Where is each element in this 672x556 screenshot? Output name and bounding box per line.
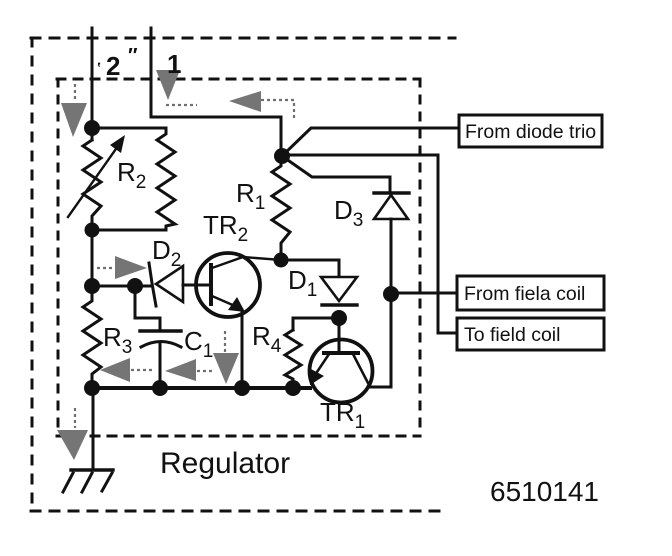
- transistor TR2 base bar: [209, 265, 213, 304]
- resistor R1: [272, 156, 290, 260]
- node: junction (339,318): [331, 310, 347, 326]
- node: bus junction (160,388): [152, 380, 168, 396]
- flow arrow 2 (top left, down): [61, 103, 87, 137]
- wire: junction to From fiela coil box: [391, 292, 457, 295]
- inner dashed border bottom: [57, 435, 420, 438]
- svg-text:ʽ: ʽ: [97, 60, 101, 77]
- capacitor C1 top plate: [140, 329, 181, 332]
- inner dashed border left: [57, 79, 60, 436]
- flow dotted tail (arrow 2): [74, 84, 76, 101]
- capacitor C1 lead from node: [135, 294, 160, 330]
- flow arrow (TR2 emitter, down): [213, 353, 239, 384]
- transistor TR1 circle: [310, 340, 373, 403]
- node: junction (135,286): [127, 278, 143, 294]
- flow arrow (ground, down): [57, 430, 88, 460]
- outer dashed border left: [31, 38, 34, 511]
- flow dotted tail (left arrow top): [261, 100, 294, 120]
- wire: junction to field-coil rail: [282, 155, 457, 333]
- node: junction (282,156): [274, 148, 290, 164]
- svg-text:Regulator: Regulator: [160, 447, 290, 480]
- flow arrow (bus 2, left): [165, 359, 196, 381]
- svg-text:From fiela coil: From fiela coil: [464, 283, 585, 305]
- capacitor C1 lead to bus: [159, 342, 162, 388]
- resistor R3: [83, 293, 101, 388]
- diode D2 triangle: [156, 266, 183, 302]
- flow arrow 1 (below label 1, down): [156, 70, 180, 100]
- diode D1 triangle: [321, 277, 357, 301]
- transistor TR1 base bar: [324, 351, 358, 355]
- diode D3 triangle: [374, 195, 408, 219]
- node: junction (92,286): [84, 278, 100, 294]
- wire: D3 to junction: [390, 219, 393, 294]
- ground bus wire: [92, 386, 310, 390]
- resistor R2 (right zigzag): [157, 128, 175, 230]
- flow arrow (at D2, pointing right): [115, 256, 147, 279]
- wire: junction to TR1 base: [338, 318, 341, 353]
- wire: junction to From diode trio: [282, 128, 459, 156]
- wire: left rail R2 to R3: [91, 230, 94, 293]
- diode D2 cathode bar: [149, 263, 156, 306]
- transistor TR1 emitter: [317, 354, 329, 372]
- node: bus junction (293,388): [285, 380, 301, 396]
- wire: junction down to TR1 collector: [368, 294, 391, 387]
- wire: junction to D3: [282, 156, 390, 192]
- node: bus junction (92,388): [84, 380, 100, 396]
- transistor TR2 collector: [212, 257, 281, 268]
- svg-text:From diode trio: From diode trio: [465, 121, 596, 143]
- flow dotted tail (bus arrow 1): [131, 369, 152, 371]
- node: junction top-left (92,128): [84, 120, 100, 136]
- flow dotted tail (arrow 1): [166, 104, 197, 106]
- svg-text:6510141: 6510141: [490, 476, 599, 507]
- node: bus junction (242,388): [234, 380, 250, 396]
- resistor R2 (variable, left zigzag): [83, 128, 101, 230]
- flow dotted tail (TR2 down arrow): [224, 331, 226, 352]
- wire: terminal 2 vertical entering at top: [91, 28, 94, 128]
- svg-text:To field coil: To field coil: [464, 324, 560, 346]
- svg-text:1: 1: [167, 49, 181, 79]
- flow dotted tail (ground arrow): [74, 408, 76, 428]
- node: junction (391,294): [383, 286, 399, 302]
- transistor TR1 collector: [353, 354, 368, 383]
- wire: bottom of R2 network: [92, 229, 166, 232]
- wire: D2 to TR2 base: [183, 284, 209, 287]
- transistor TR2 circle: [196, 253, 260, 317]
- flow dotted tail (D2 arrow): [97, 267, 114, 269]
- transistor TR2 emitter: [212, 296, 235, 306]
- svg-text:2: 2: [106, 51, 120, 81]
- flow arrow (top, pointing left): [229, 91, 261, 112]
- wire: D1 branch from junction: [281, 260, 339, 276]
- wire: D2 row from left rail: [92, 285, 152, 288]
- label box: From fiela coil: [457, 276, 604, 310]
- flow dotted tail (bus arrow 2): [197, 370, 212, 372]
- node: junction (92,230): [85, 223, 100, 238]
- capacitor C1 bottom plate (curved): [141, 342, 181, 348]
- svg-text:″: ″: [128, 45, 138, 67]
- resistor R4: [285, 330, 301, 388]
- arrow across R2 (variable symbol): [68, 146, 118, 217]
- label box: To field coil: [457, 318, 604, 350]
- inner dashed border (Regulator) top: [57, 78, 420, 81]
- diode D1 cathode bar: [322, 303, 357, 306]
- wire: TR2 emitter to bus: [241, 310, 244, 388]
- wire: top of R2 network: [92, 127, 166, 130]
- wire: bus to ground: [92, 388, 95, 470]
- ground: [63, 470, 113, 492]
- diode D3 cathode bar: [374, 191, 409, 194]
- wire: terminal 1 vertical entering at top: [151, 28, 281, 152]
- inner dashed border right: [419, 79, 422, 436]
- wire: junction to R4: [293, 318, 339, 330]
- node: junction (281,260): [274, 253, 289, 268]
- flow arrow (bus, left): [100, 358, 130, 382]
- label box: From diode trio: [459, 115, 602, 147]
- gray flow arrows: [57, 70, 261, 460]
- outer dashed border bottom: [31, 510, 449, 513]
- outer dashed border top: [31, 37, 455, 40]
